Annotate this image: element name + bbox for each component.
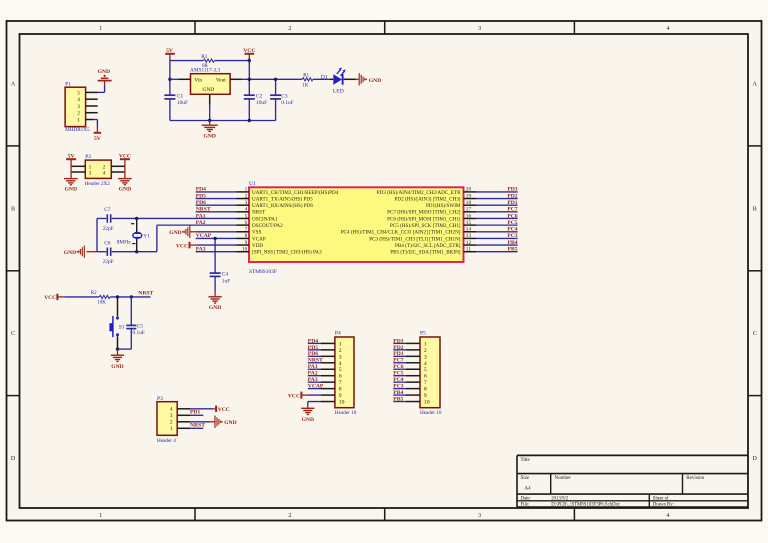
svg-text:10K: 10K: [97, 301, 106, 306]
svg-text:C: C: [11, 331, 15, 337]
svg-text:STM8S103F: STM8S103F: [249, 269, 277, 275]
node PC7: [507, 207, 517, 213]
wire Vin pin: [170, 78, 191, 80]
svg-text:16: 16: [466, 213, 472, 219]
svg-text:GND: GND: [203, 134, 215, 140]
node PD3: [507, 187, 517, 193]
svg-text:P1: P1: [65, 81, 71, 87]
pin P5.5 / net PC6: [393, 368, 420, 370]
pin U1.7 (VSS): [237, 227, 262, 236]
svg-text:2: 2: [77, 111, 80, 117]
node PD1 (P5): [393, 351, 403, 357]
node PD6 (P4): [308, 351, 318, 357]
svg-text:NRST: NRST: [138, 291, 153, 297]
power port VCC (P4): [288, 392, 302, 400]
capacitor C4 1uF: [210, 272, 231, 285]
wire U1 pin 16 / net PC6: [476, 217, 518, 219]
power port 5V (regulator input): [165, 48, 175, 58]
svg-text:GND: GND: [369, 78, 381, 84]
svg-text:1: 1: [339, 341, 342, 347]
node PC6 (P5): [393, 364, 403, 370]
svg-text:PC6: PC6: [507, 213, 517, 219]
svg-text:18: 18: [466, 200, 472, 206]
svg-text:20: 20: [466, 187, 472, 193]
svg-text:4: 4: [667, 513, 670, 519]
wire P2 right vertical: [124, 159, 126, 178]
power port VCC (reset): [44, 294, 57, 301]
svg-text:Header 4: Header 4: [157, 438, 176, 444]
svg-text:0.1uF: 0.1uF: [281, 100, 293, 106]
ground GND (C4): [208, 297, 221, 311]
pin U1.1 ((HS)PD4): [237, 187, 339, 196]
svg-text:PD1: PD1: [190, 409, 200, 415]
wire VCC stub down: [248, 58, 250, 61]
wire PA3: [196, 251, 237, 253]
resistor R3 0R: [201, 55, 214, 69]
wire C2 vertical: [248, 61, 250, 121]
svg-text:PC3: PC3: [507, 233, 517, 239]
node PB4 (P5): [393, 390, 403, 396]
svg-text:R3: R3: [201, 55, 207, 60]
ground GND (reset): [111, 349, 124, 370]
svg-text:5: 5: [339, 367, 342, 373]
crystal Y1 8MHz: [117, 218, 150, 251]
pin P3.4 / VCC: [177, 408, 216, 410]
switch S1: [109, 297, 124, 349]
junction crystal top: [135, 217, 138, 220]
pin U1.18: [426, 200, 476, 209]
svg-text:Date:: Date:: [521, 496, 531, 501]
svg-text:OSCOUT/PA2: OSCOUT/PA2: [252, 223, 283, 229]
svg-text:3: 3: [89, 170, 92, 176]
svg-text:PB5: PB5: [393, 396, 403, 402]
pin U1.6 (PA2): [237, 220, 284, 229]
svg-text:2: 2: [170, 420, 173, 426]
svg-text:PC4 (HS)/TIM1_CH4/CLK_CCO [AIN: PC4 (HS)/TIM1_CH4/CLK_CCO [AIN2] [TIM1_C…: [341, 229, 461, 236]
svg-text:PC6: PC6: [393, 364, 403, 370]
svg-text:5V: 5V: [68, 153, 75, 159]
svg-text:PA2: PA2: [196, 220, 206, 226]
svg-text:VCC: VCC: [288, 393, 300, 399]
svg-text:10uF: 10uF: [177, 100, 188, 106]
svg-text:S1: S1: [119, 324, 125, 330]
svg-text:B: B: [753, 206, 757, 212]
wire regulator GND pin: [209, 94, 211, 120]
ground GND (LED): [359, 73, 381, 85]
node PC3: [507, 233, 517, 239]
svg-text:PB4: PB4: [393, 390, 403, 396]
pin P1.1: [86, 119, 93, 121]
node PC5 (P5): [393, 371, 403, 377]
capacitor C3 0.1uF: [270, 93, 294, 106]
svg-text:Number: Number: [555, 476, 572, 481]
svg-text:PD5: PD5: [308, 345, 318, 351]
wire P1.1 to 5V: [93, 120, 97, 133]
pin P4.3 / net PD6: [308, 355, 335, 357]
wire 5V stub: [169, 58, 171, 61]
svg-text:File:: File:: [521, 503, 530, 508]
svg-text:C: C: [753, 331, 757, 337]
wire U1 pin 17 / net PC7: [476, 211, 518, 213]
svg-text:GND: GND: [119, 186, 131, 192]
pin P4.9 / VCC: [301, 394, 335, 396]
svg-text:C6: C6: [104, 240, 111, 246]
node PD2: [507, 193, 517, 199]
resistor R2 10K: [91, 291, 110, 305]
node PB4: [508, 240, 518, 246]
ground GND (P2 right): [118, 179, 132, 193]
svg-text:UART1_RX/AIN6/(HS) PD6: UART1_RX/AIN6/(HS) PD6: [252, 202, 313, 209]
svg-text:PA3: PA3: [196, 247, 206, 253]
node PB5 (P5): [393, 396, 403, 402]
svg-text:0.1uF: 0.1uF: [133, 330, 145, 336]
svg-text:C1: C1: [177, 93, 184, 99]
svg-text:2013/9/2: 2013/9/2: [551, 496, 569, 501]
wire R2 to NRST: [110, 296, 150, 298]
svg-text:C2: C2: [256, 93, 263, 99]
node VCAP: [196, 233, 212, 239]
svg-text:PD1: PD1: [393, 351, 403, 357]
svg-text:1: 1: [77, 117, 80, 123]
wire U1 pin 14 / net PC4: [476, 231, 518, 233]
svg-text:2: 2: [288, 26, 291, 32]
capacitor C1 10uF: [164, 93, 188, 106]
svg-text:PA1: PA1: [196, 213, 206, 219]
pin P4.5 / net PA1: [308, 368, 335, 370]
connector P5 Header 10: [420, 331, 442, 417]
svg-text:PD5: PD5: [196, 193, 206, 199]
node PD6: [196, 200, 206, 206]
connector P2 Header 2X2: [85, 154, 112, 187]
pin U1.8 (VCAP): [237, 233, 266, 242]
svg-text:GND: GND: [202, 87, 214, 93]
svg-text:PA1: PA1: [308, 364, 318, 370]
svg-text:1K: 1K: [302, 84, 309, 89]
svg-text:NRST: NRST: [190, 422, 205, 428]
svg-text:P3: P3: [157, 396, 163, 402]
pin U1.14: [341, 227, 476, 236]
node PC4: [507, 227, 517, 233]
pin P5.7 / net PC4: [393, 381, 420, 383]
pin P5.10 / net PB5: [393, 401, 420, 403]
pin P4.6 / net PA2: [308, 375, 335, 377]
svg-text:3: 3: [170, 413, 173, 419]
node PD1 (P3): [190, 409, 200, 415]
svg-text:VCC: VCC: [44, 295, 56, 301]
node PC3 (P5): [393, 384, 403, 390]
wire U1 pin 1 / net PD4: [196, 191, 237, 193]
svg-text:4: 4: [77, 97, 80, 103]
wire PA1 to crystal: [97, 217, 237, 219]
svg-text:PD6: PD6: [308, 351, 318, 357]
svg-text:PB5 (T)/I2C_SDA [TIM1_BKIN]: PB5 (T)/I2C_SDA [TIM1_BKIN]: [390, 249, 461, 256]
wire VDD to VCC: [190, 244, 237, 246]
pin P2.2: [111, 165, 125, 167]
svg-text:PC5: PC5: [507, 220, 517, 226]
IC U1 STM8S103F: [249, 181, 464, 275]
connector P3 Header 4: [157, 396, 177, 444]
svg-text:4: 4: [667, 26, 670, 32]
node PA1: [196, 213, 206, 219]
svg-text:PD2: PD2: [393, 345, 403, 351]
svg-text:GND: GND: [111, 364, 123, 370]
resistor R1 1K: [302, 73, 313, 88]
pin P5.6 / net PC5: [393, 375, 420, 377]
pin P2.3: [71, 171, 85, 173]
pin U1.13: [369, 233, 476, 242]
svg-text:3: 3: [77, 104, 80, 110]
svg-text:A4: A4: [525, 487, 532, 492]
svg-text:5V: 5V: [94, 136, 101, 142]
svg-text:1uF: 1uF: [222, 278, 230, 284]
svg-text:PB5: PB5: [508, 247, 518, 253]
ground GND (P4): [301, 408, 314, 423]
svg-text:4: 4: [245, 207, 248, 213]
ground GND (crystal): [64, 246, 97, 258]
svg-text:7: 7: [245, 227, 248, 233]
svg-text:GND: GND: [98, 69, 110, 75]
pin P1.5: [86, 91, 98, 93]
power port VCC (P2): [119, 153, 131, 159]
pin P2.4: [111, 171, 125, 173]
wire U1 pin 12 / net PB4: [476, 244, 518, 246]
svg-text:D1: D1: [321, 74, 328, 80]
svg-text:10: 10: [339, 400, 345, 406]
wire left vertical 5V net: [169, 61, 171, 96]
pin U1.10 ((HS) PA3): [237, 247, 323, 256]
wire C1 bottom: [169, 99, 171, 121]
wire P1.5 to GND: [98, 81, 105, 93]
svg-text:7: 7: [339, 380, 342, 386]
svg-text:5: 5: [424, 367, 427, 373]
wire bottom rail: [170, 120, 276, 122]
node PC7 (P5): [393, 358, 403, 364]
svg-text:NRST: NRST: [196, 207, 211, 213]
svg-text:VCC: VCC: [218, 407, 230, 413]
svg-text:9: 9: [424, 393, 427, 399]
svg-text:10uF: 10uF: [256, 100, 267, 106]
svg-text:1: 1: [99, 513, 102, 519]
pin P4.8 / net VCAP: [308, 388, 335, 390]
title block: [517, 455, 748, 507]
wire VSS to GND: [190, 231, 237, 233]
svg-text:VCC: VCC: [243, 48, 255, 54]
svg-text:C7: C7: [104, 207, 111, 213]
junction crystal bottom: [135, 250, 138, 253]
ground GND (P3): [215, 416, 237, 428]
svg-text:PC4: PC4: [507, 227, 517, 233]
pin U1.9 (VDD): [237, 240, 264, 249]
svg-text:Title: Title: [521, 458, 531, 463]
svg-text:3: 3: [245, 200, 248, 206]
wire U1 pin 11 / net PB5: [476, 251, 518, 253]
svg-text:VCC: VCC: [119, 153, 131, 159]
pin P5.4 / net PC7: [393, 362, 420, 364]
svg-text:A: A: [11, 82, 16, 88]
svg-text:A: A: [753, 82, 758, 88]
node NRST: [138, 291, 153, 297]
wire C5 bottom / S1 bottom: [118, 329, 132, 350]
svg-text:PD1: PD1: [507, 200, 517, 206]
pin P5.2 / net PD2: [393, 349, 420, 351]
ground GND (U1 VSS): [169, 226, 190, 238]
svg-text:10: 10: [424, 400, 430, 406]
power port VCC (P3): [216, 406, 230, 413]
wire U1 pin 3 / net PD6: [196, 204, 237, 206]
wire U1 pin 4 / net NRST: [196, 211, 237, 213]
node PD2 (P5): [393, 345, 403, 351]
node NRST (P3): [190, 422, 205, 428]
pin U1.15: [390, 220, 476, 229]
wire PA2 jog: [97, 218, 237, 251]
svg-text:1: 1: [424, 341, 427, 347]
svg-text:UART1_CK/TIM2_CH1/BEEP/(HS)PD4: UART1_CK/TIM2_CH1/BEEP/(HS)PD4: [252, 189, 339, 196]
node VCAP (P4): [308, 384, 324, 390]
svg-text:Vout: Vout: [216, 78, 227, 84]
junction Vout at C2: [248, 78, 251, 81]
node NRST (P4): [308, 358, 323, 364]
svg-text:Size: Size: [521, 476, 530, 481]
svg-text:[SPI_NSS] TIM2_CH3/(HS) PA3: [SPI_NSS] TIM2_CH3/(HS) PA3: [252, 249, 322, 256]
wire D1 cathode: [344, 78, 360, 80]
capacitor C6 22pF: [103, 240, 114, 265]
svg-text:10: 10: [242, 247, 248, 253]
node PD5: [196, 193, 206, 199]
capacitor C2 10uF: [244, 93, 267, 106]
svg-text:VCAP: VCAP: [308, 384, 324, 390]
svg-text:PB4: PB4: [508, 240, 518, 246]
svg-text:3: 3: [339, 354, 342, 360]
svg-text:PD2 (HS)/[AIN3] [TIM2_CH3]: PD2 (HS)/[AIN3] [TIM2_CH3]: [395, 195, 461, 202]
node PD4 (P4): [308, 338, 318, 344]
pin P4.10 / GND: [308, 402, 335, 409]
svg-text:2: 2: [339, 348, 342, 354]
svg-text:PD3: PD3: [393, 338, 403, 344]
svg-text:4: 4: [424, 361, 427, 367]
svg-text:Vin: Vin: [194, 78, 202, 84]
svg-text:PA2: PA2: [308, 371, 318, 377]
pin P1.3: [86, 105, 98, 107]
svg-text:PC5: PC5: [393, 371, 403, 377]
wire Vout pin: [230, 78, 302, 80]
svg-text:LED: LED: [333, 88, 344, 94]
node PC5: [507, 220, 517, 226]
pin P4.7 / net PA3: [308, 381, 335, 383]
wire U1 pin 19 / net PD2: [476, 198, 518, 200]
svg-text:VCAP: VCAP: [252, 236, 266, 242]
svg-text:Header 2X2: Header 2X2: [85, 181, 111, 187]
junction NRST at S1: [116, 295, 119, 298]
node PD4: [196, 187, 206, 193]
svg-text:C3: C3: [281, 93, 288, 99]
pin P4.2 / net PD5: [308, 349, 335, 351]
svg-text:22pF: 22pF: [103, 259, 114, 265]
svg-text:9: 9: [245, 240, 248, 246]
node PD1: [507, 200, 517, 206]
svg-text:PC3: PC3: [393, 384, 403, 390]
svg-text:3: 3: [424, 354, 427, 360]
pin P1.2: [86, 112, 98, 114]
svg-text:C5: C5: [137, 324, 144, 330]
svg-text:13: 13: [466, 233, 472, 239]
wire C5 vertical top: [130, 297, 132, 326]
pin P3.3 / net PD1: [177, 414, 203, 416]
svg-text:Drawn By:: Drawn By:: [653, 503, 674, 508]
svg-text:19: 19: [466, 193, 472, 199]
svg-text:5: 5: [77, 90, 80, 96]
svg-text:6: 6: [245, 220, 248, 226]
node PB5: [508, 247, 518, 253]
wire C3 vertical: [275, 79, 277, 120]
junction VCC rail: [248, 59, 251, 62]
svg-text:8: 8: [245, 233, 248, 239]
node PD3 (P5): [393, 338, 403, 344]
connector P4 Header 10: [335, 331, 357, 417]
svg-text:14: 14: [466, 227, 472, 233]
svg-text:GND: GND: [65, 186, 77, 192]
pin P2.1: [71, 165, 85, 167]
svg-text:PD4: PD4: [308, 338, 318, 344]
pin U1.5 (PA1): [237, 213, 278, 222]
power port VCC (U1 VDD): [176, 242, 190, 250]
wire R3 to VCC: [214, 60, 249, 62]
wire VCAP: [196, 237, 237, 239]
svg-text:GND: GND: [209, 305, 221, 311]
svg-text:PB4 (T)/I2C_SCL [ADC_ETR]: PB4 (T)/I2C_SCL [ADC_ETR]: [395, 242, 461, 249]
svg-text:NRST: NRST: [308, 358, 323, 364]
ground GND (P2 left): [64, 179, 78, 193]
svg-text:OSCIN/PA1: OSCIN/PA1: [252, 216, 278, 222]
svg-text:3: 3: [478, 26, 481, 32]
power port 5V (P2): [66, 153, 76, 159]
node PA2 (P4): [308, 371, 318, 377]
wire C4 to GND: [214, 276, 216, 296]
pin U1.19: [395, 193, 476, 202]
wire U1 pin 13 / net PC3: [476, 237, 518, 239]
svg-text:2: 2: [245, 193, 248, 199]
pin U1.11: [390, 247, 476, 256]
connector P1 MHDR1X5: [65, 81, 90, 133]
pin U1.20: [377, 187, 476, 196]
svg-text:8: 8: [339, 387, 342, 393]
node PA3: [196, 247, 206, 253]
power port 5V (P1): [94, 133, 101, 142]
svg-text:PD2: PD2: [507, 193, 517, 199]
svg-text:22pF: 22pF: [103, 226, 114, 232]
capacitor C7 22pF: [103, 207, 114, 232]
junction Vout at C3: [274, 78, 277, 81]
pin P3.2 / GND: [177, 421, 215, 423]
node NRST: [196, 207, 211, 213]
svg-text:D:\PCB\..\STM8S103F3P6.SchDoc: D:\PCB\..\STM8S103F3P6.SchDoc: [551, 503, 620, 508]
svg-text:PC7: PC7: [393, 358, 403, 364]
node PA2: [196, 220, 206, 226]
svg-text:4: 4: [339, 361, 342, 367]
svg-text:P2: P2: [85, 154, 91, 160]
svg-text:VCC: VCC: [176, 243, 188, 249]
svg-text:PC7 (HS)/SPI_MISO [TIM1_CH2]: PC7 (HS)/SPI_MISO [TIM1_CH2]: [387, 209, 461, 216]
svg-text:8: 8: [424, 387, 427, 393]
wire U1 pin 20 / net PD3: [476, 191, 518, 193]
svg-text:P5: P5: [420, 331, 426, 337]
svg-text:9: 9: [339, 393, 342, 399]
svg-text:UART1_TX/AIN5/(HS) PD5: UART1_TX/AIN5/(HS) PD5: [252, 195, 313, 202]
svg-text:PC7: PC7: [507, 207, 517, 213]
ground GND (above P1): [98, 69, 112, 81]
svg-text:VCAP: VCAP: [196, 233, 212, 239]
svg-text:5V: 5V: [166, 48, 173, 54]
svg-text:Header 10: Header 10: [420, 410, 442, 416]
